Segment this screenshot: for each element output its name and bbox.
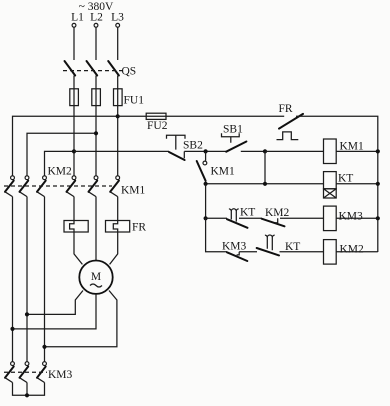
wire control row2 [206,183,324,185]
wire L1 to QS [73,27,75,60]
wire QS to FU1 pole2 [95,76,97,89]
wire left bus 1 down [12,197,14,362]
wire to coil KM2 [280,251,324,253]
contactor KM1 main contact 2 [94,176,98,180]
contactor KM1 main contact 3 [116,176,120,180]
contactor KM2 main contact 3 [43,176,47,180]
wire L3 to QS [117,27,119,60]
wire N1 branch down [205,184,207,219]
terminal L2 [94,23,98,27]
node bus1 lower [10,327,14,331]
svg-text:KM3: KM3 [339,211,364,223]
fuse FU1 pole2 [95,89,97,176]
contact KM3 aux NO [227,252,247,261]
wire heater2 to motor [110,232,118,264]
node row2 left [204,182,208,186]
terminal L3 [116,23,120,27]
node tap L1 [72,149,76,153]
svg-text:KT: KT [240,207,255,219]
wire heater1 to motor [74,232,82,264]
wire motor bottom to bus1 [13,294,97,329]
wire tap phase L2 to left bus 2 [27,133,96,175]
motor M [79,261,112,294]
switch QS pole 1 blade [65,61,76,76]
wire FR to right rail [296,116,378,252]
svg-text:KM3: KM3 [48,369,73,381]
fuse FU2 [146,113,166,119]
wire coil KM3 to rail [336,217,378,219]
coil KM3 [324,206,337,231]
contact KT delayed NC [227,219,248,228]
contactor KM3 linkage dashed [4,371,47,373]
svg-text:SB2: SB2 [183,140,203,152]
contact KT delayed NO [257,248,279,255]
node row2 mid [263,182,267,186]
svg-text:KM1: KM1 [340,141,365,153]
fuse FU1 pole3 [117,89,119,176]
wire L2 to QS [95,27,97,60]
wire control row1 left [74,150,169,152]
main contacts linkage dashed [4,185,112,187]
wire coil KM1 to rail [336,150,378,152]
contactor KM3 contact 1 [11,362,15,366]
node rail row1 [376,149,380,153]
wire phase 2 through [95,197,97,261]
pushbutton SB2 [169,152,185,160]
svg-text:FU1: FU1 [124,95,145,107]
wire row3 to row4 [206,218,227,252]
wire left bus 2 down [26,197,28,362]
wire motor bottom-left to bus2 [27,291,83,315]
contactor KM1 main contact 1 [72,176,76,180]
svg-text:FR: FR [132,222,146,234]
wire tap phase L1 to left bus 3 [45,151,75,175]
svg-text:KM2: KM2 [340,244,365,256]
wire row1 to coil KM1 [265,150,324,152]
fuse FU1 pole1 [73,89,75,176]
thermal relay FR heater 1 [64,221,88,233]
node tap L2 [94,131,98,135]
thermal relay FR heater 2 [106,221,130,233]
svg-text:KM3: KM3 [222,241,247,253]
wire coil KT to rail [336,183,378,185]
wire to coil KM3 [280,217,324,219]
node bus3 lower [42,345,46,349]
node rail row3 [376,216,380,220]
svg-text:SB1: SB1 [223,124,243,136]
wire KM3 aux to KT contact [239,251,257,253]
node bus2 lower [25,312,29,316]
coil KT time relay [324,172,337,189]
svg-text:L2: L2 [90,12,103,24]
coil KM2 [324,240,337,265]
svg-text:KT: KT [338,173,353,185]
contact KM1 aux self [205,151,207,160]
switch QS pole 3 blade [108,61,119,76]
wire N2 down [264,151,266,183]
wire tap phase L3 to left bus 1 [13,116,118,175]
node row3 left [204,216,208,220]
svg-text:M: M [91,271,101,283]
contactor KM3 contact 3 [43,362,47,366]
node tap L3 [116,114,120,118]
thermal relay FR contact [279,114,303,129]
pushbutton SB1 [226,142,246,152]
svg-text:FR: FR [279,103,293,115]
wire control top rail [118,115,285,117]
contact KM2 NC interlock [262,219,285,227]
node N1 [204,149,208,153]
wire phase 1 to heater [73,197,75,221]
svg-text:KM2: KM2 [48,166,73,178]
svg-text:KM1: KM1 [121,185,146,197]
svg-text:QS: QS [122,66,137,78]
wire phase 3 to heater [117,197,119,221]
wire motor bottom-right to bus3 [45,291,117,347]
coil KM1 [324,139,337,164]
svg-text:KM2: KM2 [265,207,290,219]
svg-text:L3: L3 [111,12,124,24]
contactor KM3 contact 2 [25,362,29,366]
wire SB1 to node N2 [241,150,265,152]
wire QS to FU1 pole1 [73,76,75,89]
wire KT to KM2 contact [239,217,262,219]
wire SB2 to node N1 [184,150,226,152]
node star point [25,393,29,397]
node rail row2 [376,182,380,186]
wire coil KM2 to rail [336,251,378,253]
wire star point bus [13,383,45,396]
switch QS pole 2 blade [87,61,98,76]
contactor KM2 main contact 1 [11,176,15,180]
wire row3 to KT contact [206,217,227,219]
svg-text:FU2: FU2 [147,120,168,132]
wire QS to FU1 pole3 [117,76,119,89]
svg-text:KM1: KM1 [211,166,236,178]
svg-text:L1: L1 [71,12,84,24]
switch QS linkage dashed [63,70,124,72]
node N2 [263,149,267,153]
wire left bus 3 down [44,197,46,362]
terminal L1 [72,23,76,27]
contactor KM2 main contact 2 [25,176,29,180]
